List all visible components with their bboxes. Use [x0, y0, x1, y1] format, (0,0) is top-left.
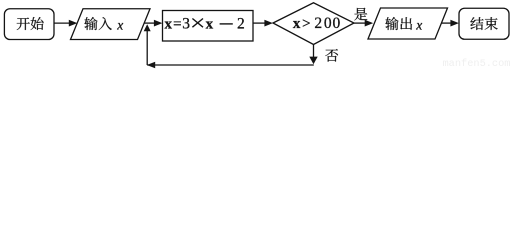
svg-text:=: = [173, 17, 181, 33]
arrowhead up joining input-process wire [144, 24, 151, 31]
end terminator 结束 [459, 8, 509, 39]
wire: start to input [54, 22, 71, 24]
svg-text:manfen5.com: manfen5.com [443, 58, 511, 69]
output parallelogram 输出 x [368, 8, 448, 39]
label 开始 [17, 18, 30, 30]
svg-text:0: 0 [324, 15, 332, 32]
label 输入 [84, 17, 97, 30]
svg-text:x: x [116, 17, 123, 32]
svg-text:x: x [206, 17, 214, 33]
wire: output to end [442, 22, 453, 24]
label 结束 [470, 17, 483, 30]
arrowhead left at feedback corner [147, 62, 156, 68]
svg-text:2: 2 [237, 16, 245, 33]
svg-text:>: > [302, 16, 310, 32]
start terminator 开始 [4, 9, 54, 40]
wire: feedback vertical line up [146, 31, 148, 66]
svg-text:0: 0 [333, 15, 341, 32]
svg-text:x: x [415, 17, 422, 32]
label 否 (no) [325, 49, 338, 62]
wire: decision bottom drop with down arrowhead [313, 45, 315, 58]
decision diamond x>200 [273, 3, 354, 45]
svg-text:x: x [164, 17, 172, 33]
svg-text:2: 2 [314, 15, 322, 32]
process rectangle x=3*x-2 [163, 11, 254, 42]
wire: process to decision [253, 22, 266, 24]
wire: input to process [144, 22, 156, 24]
label 是 (yes) [354, 8, 367, 21]
input parallelogram 输入 x [71, 9, 151, 40]
wire: feedback horizontal line [147, 64, 314, 66]
svg-text:x: x [293, 16, 301, 32]
wire: decision to output (yes branch) [354, 22, 367, 24]
svg-text:3: 3 [182, 16, 190, 33]
label 输出 [385, 17, 398, 30]
